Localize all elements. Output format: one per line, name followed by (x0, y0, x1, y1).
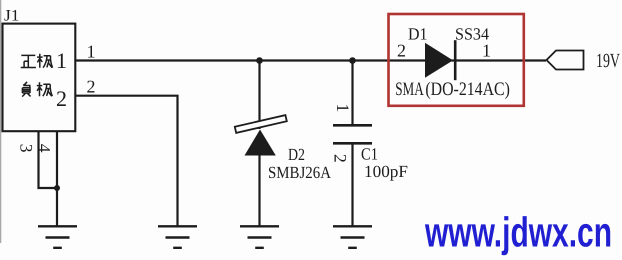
svg-text:2: 2 (331, 154, 351, 163)
ground G1 (38, 226, 77, 248)
junction node D2 branch (256, 57, 263, 64)
TVS diode D2 cathode bar (235, 115, 287, 133)
svg-text:4: 4 (35, 144, 55, 153)
svg-text:(DO-214AC): (DO-214AC) (425, 79, 510, 100)
wire pin 3 (39, 131, 58, 188)
junction node C1 branch (349, 57, 356, 64)
diode D1 anode triangle (425, 43, 453, 78)
left page border artifact (0, 0, 1, 243)
svg-text:www.jdwx.cn: www.jdwx.cn (424, 209, 612, 256)
svg-text:1: 1 (333, 104, 353, 113)
svg-text:C1: C1 (361, 145, 378, 164)
svg-text:1: 1 (56, 48, 67, 73)
wire D2 to ground (258, 155, 260, 226)
svg-text:SMA: SMA (395, 79, 424, 100)
wire C1 bottom to ground (351, 145, 353, 227)
connector J1 (3, 8, 76, 132)
label 正极 (positive) (21, 54, 53, 68)
diode D1 cathode bar (454, 40, 457, 80)
svg-text:2: 2 (56, 86, 67, 111)
output connector tag 19V (547, 51, 584, 70)
wire pin 4 to ground (56, 131, 58, 226)
svg-text:D2: D2 (288, 145, 305, 164)
svg-text:J1: J1 (4, 8, 20, 25)
svg-text:19V: 19V (596, 50, 620, 72)
wire D2 branch (258, 61, 260, 130)
svg-text:2: 2 (87, 77, 96, 97)
ground G4 (333, 226, 372, 248)
svg-text:100pF: 100pF (364, 162, 408, 181)
svg-text:2: 2 (397, 41, 406, 61)
ground G2 (158, 226, 197, 248)
svg-text:3: 3 (17, 144, 37, 153)
svg-text:1: 1 (482, 41, 491, 61)
wire pin 1 / +19V rail (75, 59, 546, 61)
wire C1 top (351, 61, 353, 125)
svg-text:D1: D1 (408, 25, 428, 44)
capacitor C1 plates (333, 125, 372, 143)
label 负极 (negative) (22, 82, 52, 97)
wire pin 2 to ground (75, 96, 177, 226)
svg-text:1: 1 (87, 42, 96, 62)
svg-text:SMBJ26A: SMBJ26A (268, 163, 332, 182)
TVS diode D2 anode triangle (245, 130, 276, 156)
junction pins 3/4 (54, 185, 60, 191)
ground G3 (240, 226, 279, 248)
annotation highlight box around D1 (389, 14, 524, 106)
